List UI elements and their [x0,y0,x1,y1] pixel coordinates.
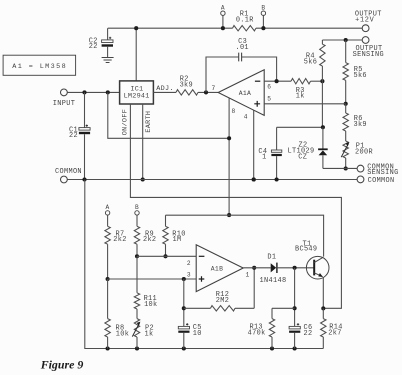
svg-text:1M: 1M [173,236,182,244]
wire input to IC1 [67,91,119,93]
resistor R1 [233,26,256,31]
wire V+ rail [108,92,229,138]
terminal OUTPUT +12V [362,25,369,32]
diode D1 1N4148 [271,263,277,272]
potentiometer P1 [343,141,348,158]
resistor R7 [105,226,110,244]
resistor R14 [322,308,324,318]
svg-text:1: 1 [246,271,250,278]
terminal COMMON right [357,176,364,183]
wire V+ lower rail to T1 collector [166,215,324,256]
regulator IC1 LM2941 [120,81,154,104]
resistor R4 [321,40,323,44]
potentiometer P2 [136,309,138,319]
node B top [261,11,265,15]
wire R3 to R4 [311,80,323,82]
capacitor C2 [107,28,109,40]
svg-text:+12V: +12V [355,16,375,24]
svg-text:2k2: 2k2 [143,236,156,244]
wire common down left side and bottom rail [85,180,323,349]
svg-text:5k6: 5k6 [304,58,317,66]
svg-text:B: B [261,4,265,11]
svg-text:2k7: 2k7 [328,330,341,338]
wire base node horizontal [272,307,295,309]
wire R12 to A1B output [253,268,255,309]
wire R4 down to reference node [321,81,323,127]
svg-text:7: 7 [212,85,216,92]
op-amp A1A [218,70,264,116]
svg-text:22: 22 [89,43,98,51]
wire ON/OFF to emitter node [130,104,341,308]
svg-text:5k6: 5k6 [353,72,366,80]
wire A1A pin5 [264,103,346,105]
svg-text:D1: D1 [267,254,276,262]
resistor R3 [291,79,310,84]
svg-text:BC549: BC549 [295,246,317,254]
svg-text:INPUT: INPUT [53,100,75,108]
svg-text:200R: 200R [355,148,373,156]
node A top [221,11,225,15]
op-amp A1B [196,245,243,292]
wire R9 to pin2 wire [136,244,138,256]
wire A1B pin3 [108,278,197,280]
svg-text:22: 22 [304,330,313,338]
wire A1A pin 4 [253,110,255,179]
svg-text:10k: 10k [116,330,129,338]
svg-text:3k9: 3k9 [180,81,193,89]
wire EARTH to common [142,104,144,180]
svg-text:CZ: CZ [298,153,307,161]
svg-text:6: 6 [267,84,271,91]
svg-text:5: 5 [267,96,271,103]
svg-text:COMMON: COMMON [368,177,395,185]
svg-text:8: 8 [232,108,236,115]
wire IC1 input pin [135,28,137,81]
terminal COMMON left [61,176,68,183]
svg-text:1N4148: 1N4148 [260,277,287,285]
capacitor C1 [84,92,86,127]
wire output sensing [322,39,362,41]
svg-text:ON/OFF: ON/OFF [122,109,130,135]
resistor R11 [136,256,138,293]
svg-text:Figure 9: Figure 9 [40,357,84,371]
svg-text:3: 3 [187,271,191,278]
wire base node down [294,268,296,327]
svg-text:COMMON: COMMON [55,168,82,176]
svg-text:SENSING: SENSING [367,169,398,177]
svg-text:2M2: 2M2 [216,297,229,305]
wire A1A pin 8 [228,98,230,215]
node A bottom [105,211,109,215]
svg-text:22: 22 [69,132,78,140]
resistor R13 [271,308,273,318]
resistor R9 [134,226,139,244]
wire A1B output [243,267,271,269]
wire D1 to T1 base [277,267,314,269]
wire top supply rail [108,27,362,29]
svg-text:EARTH: EARTH [145,111,153,133]
capacitor C6 [289,326,300,329]
svg-text:2: 2 [187,260,191,267]
svg-text:.01: .01 [235,44,248,52]
wire R2 to A1A output [198,91,218,93]
wire reference node [277,126,323,128]
zener Z2 LT1029CZ [322,127,324,149]
svg-text:10k: 10k [144,301,157,309]
svg-text:1: 1 [262,154,267,162]
wire Z2 to common sensing terminal [323,167,357,169]
wire C1 to common [84,134,86,179]
A1B plus input [199,276,205,282]
resistor R8 [107,279,109,319]
svg-text:SENSING: SENSING [353,51,384,59]
capacitor C5 [183,279,185,326]
svg-text:3k9: 3k9 [353,121,366,129]
wire P1 to common sensing [345,158,347,169]
svg-text:470k: 470k [248,330,266,338]
wire T1 emitter [322,277,324,308]
svg-text:A: A [221,4,225,11]
node B bottom [135,211,139,215]
svg-text:LM2941: LM2941 [124,92,150,100]
svg-text:B: B [135,204,139,211]
capacitor C4 [276,127,278,150]
resistor R5 [345,40,347,63]
A1A minus input pin 6 [255,80,260,82]
wire IC1 ADJ to R2 [153,91,176,93]
terminal COMMON SENSING [357,165,364,172]
resistor R2 [176,90,198,95]
terminal OUTPUT SENSING [362,37,369,44]
transistor T1 BC549 [306,256,329,279]
svg-text:1k: 1k [145,330,154,338]
svg-text:0.1R: 0.1R [236,17,254,25]
A1B minus input [199,255,205,257]
legend box A1 = LM358 [3,55,76,75]
wire A1B pin2 [137,255,196,257]
capacitor C3 [206,57,277,92]
svg-text:1k: 1k [296,93,305,101]
svg-text:A1 = LM358: A1 = LM358 [12,63,67,71]
resistor R12 [184,307,211,309]
wire A1A pin6 [264,80,291,82]
svg-text:A1B: A1B [211,265,223,272]
svg-text:A1A: A1A [239,90,251,97]
svg-text:4: 4 [244,114,248,121]
resistor R10 [165,215,167,226]
svg-text:10: 10 [193,330,202,338]
svg-text:2k2: 2k2 [113,236,126,244]
svg-text:A: A [106,204,110,211]
wire common rail [67,179,357,181]
A1A plus input pin 5 [254,101,260,107]
resistor R6 [345,104,347,113]
terminal INPUT [61,89,68,96]
ground [102,58,114,63]
wire R7 to pin3 wire [107,244,109,279]
